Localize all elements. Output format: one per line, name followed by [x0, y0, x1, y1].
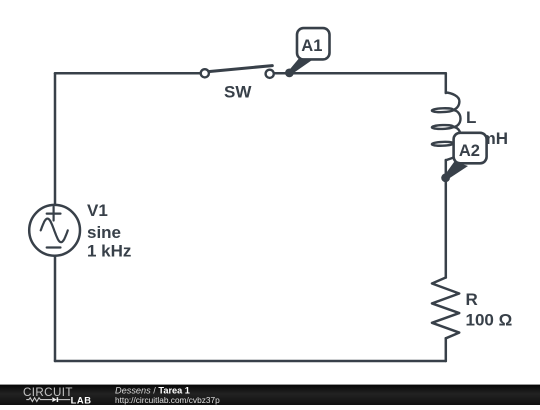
wire inductor-bottom to resistor-top — [445, 160, 448, 278]
svg-text:sine: sine — [87, 223, 121, 242]
logo resistor squiggle — [26, 398, 52, 402]
L coil loop 1 — [432, 108, 454, 113]
wire resistor-bottom to corner — [445, 338, 448, 361]
logo diode arrow — [52, 397, 57, 402]
wire top-left segment — [55, 72, 201, 75]
L coil arc 2 — [453, 110, 460, 127]
wire left side upper — [54, 73, 57, 205]
SW lever arm — [208, 66, 272, 72]
probe A2 tail — [444, 162, 468, 180]
probe A2 box — [454, 133, 487, 164]
voltage source V1 — [29, 205, 80, 256]
probe A1 tail — [288, 57, 312, 75]
svg-text:CIRCUIT: CIRCUIT — [23, 386, 73, 399]
probe A2 junction dot — [441, 173, 450, 182]
svg-text:V1: V1 — [87, 201, 108, 220]
svg-text:SW: SW — [224, 83, 252, 102]
wire left side lower — [54, 256, 57, 361]
V1 minus sign — [47, 246, 61, 248]
probe A1 junction dot — [285, 69, 294, 78]
L coil arc 3 — [453, 127, 460, 144]
L coil loop 3 — [432, 142, 454, 147]
svg-text:L: L — [466, 108, 476, 127]
svg-text:http://circuitlab.com/cvbz37p: http://circuitlab.com/cvbz37p — [115, 395, 220, 405]
probe A1 box — [297, 28, 330, 59]
switch SW — [201, 66, 274, 78]
L coil top arc — [446, 93, 460, 111]
V1 plus sign — [47, 207, 61, 221]
wire right upper (corner to inductor) — [445, 73, 448, 93]
svg-text:LAB: LAB — [71, 394, 92, 405]
inductor L coil — [432, 93, 465, 161]
wire top-right segment — [274, 72, 446, 75]
footer bar — [0, 385, 540, 405]
V1 labels — [87, 201, 131, 261]
SW left contact — [201, 69, 209, 77]
svg-text:R: R — [466, 290, 478, 309]
wire bottom — [55, 360, 446, 363]
svg-text:A2: A2 — [459, 142, 480, 160]
V1 source circle — [29, 205, 80, 256]
L coil arc 4 — [453, 142, 464, 159]
L coil bottom jog — [446, 158, 454, 161]
svg-text:100 Ω: 100 Ω — [466, 311, 513, 330]
resistor R zigzag — [432, 278, 459, 339]
L coil loop 2 — [432, 125, 454, 130]
SW right contact — [266, 70, 274, 78]
svg-text:1 kHz: 1 kHz — [87, 242, 131, 261]
V1 sine waveform — [41, 219, 68, 243]
svg-text:A1: A1 — [301, 37, 322, 55]
